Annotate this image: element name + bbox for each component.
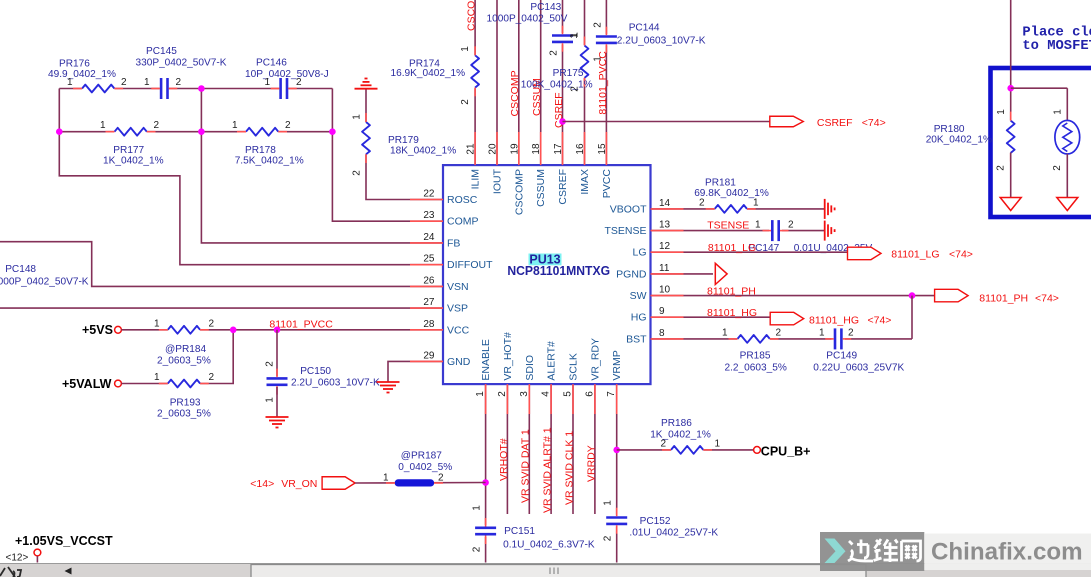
pin 19 CSCOMP: [509, 132, 525, 215]
svg-text:0_0402_5%: 0_0402_5%: [398, 462, 452, 473]
thermistor RT: [1052, 109, 1080, 171]
svg-text:to MOSFET: to MOSFET: [1022, 39, 1091, 54]
svg-text:PR186: PR186: [661, 418, 692, 429]
svg-text:81101_PVCC: 81101_PVCC: [597, 51, 609, 115]
wire PR180 to ground: [1010, 153, 1012, 198]
svg-text:16: 16: [575, 143, 586, 155]
svg-text:IOUT: IOUT: [492, 168, 504, 194]
svg-text:2.2_0603_5%: 2.2_0603_5%: [725, 362, 787, 373]
svg-text:PR180: PR180: [934, 124, 965, 135]
svg-text:PR178: PR178: [245, 145, 276, 156]
wire +5VALW to VCC node: [121, 330, 233, 384]
svg-text:CSSUM: CSSUM: [535, 169, 547, 207]
pin 4 ALERT#: [541, 341, 558, 414]
svg-text:VRRDY: VRRDY: [585, 445, 597, 482]
svg-text:81101_PH: 81101_PH: [707, 286, 756, 298]
svg-text:+1.05VS_VCCST: +1.05VS_VCCST: [15, 534, 113, 548]
wire thermistor to ground: [1066, 154, 1068, 198]
svg-text:2: 2: [285, 120, 291, 131]
svg-text:7.5K_0402_1%: 7.5K_0402_1%: [235, 156, 304, 167]
svg-text:3: 3: [519, 391, 530, 397]
pin 8 BST: [626, 328, 683, 346]
svg-text:5: 5: [563, 391, 574, 397]
port +1.05VS_VCCST: [6, 534, 113, 564]
svg-text:81101_LG: 81101_LG: [891, 249, 939, 261]
resistor PR174: [391, 46, 480, 105]
ground symbol GND pin: [377, 382, 400, 393]
svg-text:2: 2: [154, 120, 160, 131]
pin 2 VR_HOT#: [497, 332, 514, 414]
watermark chinafix dark box: [820, 532, 924, 571]
pin 14 VBOOT: [610, 198, 684, 216]
wire PC150 branch: [276, 330, 278, 376]
scrollbar thumb: [251, 565, 866, 577]
svg-text:VR_RDY: VR_RDY: [589, 338, 601, 381]
svg-text:2: 2: [438, 473, 444, 484]
svg-text:VR_ON: VR_ON: [281, 478, 317, 490]
pin 23 COMP: [410, 210, 479, 228]
earth ground symbol: [355, 79, 378, 89]
wire VRMP to CPU_B+: [617, 449, 754, 451]
svg-text:81101_HG: 81101_HG: [707, 307, 757, 319]
power arrow PGND: [715, 263, 727, 284]
svg-text:13: 13: [659, 220, 671, 231]
resistor PR193: [154, 372, 215, 420]
svg-text:PR177: PR177: [113, 145, 144, 156]
svg-text:1: 1: [460, 46, 471, 52]
wire HG: [651, 316, 771, 318]
wire LG: [651, 251, 848, 253]
svg-text:27: 27: [423, 297, 435, 308]
svg-text:2.2U_0603_10V7-K: 2.2U_0603_10V7-K: [617, 36, 706, 47]
svg-text:1: 1: [819, 327, 825, 338]
svg-text:CSREF: CSREF: [817, 117, 853, 129]
svg-text:+5VALW: +5VALW: [62, 377, 112, 391]
svg-text:2: 2: [661, 438, 667, 449]
port +5VALW: [62, 377, 121, 391]
svg-text:TSENSE: TSENSE: [707, 219, 749, 231]
partial chinese char bottom left: [0, 567, 21, 577]
wire top row node: [59, 88, 332, 90]
wire left vertical to DIFFOUT: [59, 89, 443, 265]
watermark chevron: [825, 539, 846, 564]
svg-text:16.9K_0402_1%: 16.9K_0402_1%: [391, 68, 466, 79]
svg-text:VRHOT#: VRHOT#: [498, 438, 510, 481]
svg-text:VR SVID DAT 1: VR SVID DAT 1: [520, 429, 532, 503]
svg-text:4: 4: [541, 391, 552, 397]
svg-text:CSCOMP: CSCOMP: [465, 0, 477, 31]
capacitor PC149: [813, 327, 904, 373]
svg-text:1: 1: [715, 438, 721, 449]
junction row2 left: [56, 128, 63, 135]
svg-text:2: 2: [352, 170, 363, 176]
svg-text:<14>: <14>: [250, 478, 274, 490]
svg-text:20: 20: [488, 143, 499, 155]
wire top right vertical: [1010, 0, 1012, 121]
resistor @PR187 zero ohm: [383, 450, 452, 486]
svg-text:18K_0402_1%: 18K_0402_1%: [390, 146, 456, 157]
svg-text:PR175: PR175: [553, 68, 584, 79]
capacitor PC145: [136, 46, 227, 99]
scrollbar left arrow: [65, 568, 72, 575]
junction VCC node A: [230, 327, 237, 334]
svg-text:1: 1: [352, 114, 363, 120]
svg-text:VRMP: VRMP: [611, 350, 623, 380]
pin 20 IOUT: [488, 132, 504, 194]
pin 22 ROSC: [410, 189, 478, 207]
svg-text:1: 1: [154, 318, 160, 329]
pin 28 VCC: [410, 319, 470, 337]
flag 81101_PH: [935, 289, 1059, 304]
wire SW / net 81101_PH: [651, 295, 935, 297]
pin 25 DIFFOUT: [410, 254, 493, 272]
svg-text:2: 2: [497, 391, 508, 397]
svg-text:1K_0402_1%: 1K_0402_1%: [103, 156, 164, 167]
pin 5 SCLK: [563, 353, 580, 414]
svg-text:2: 2: [996, 165, 1007, 171]
svg-text:SDIO: SDIO: [524, 355, 536, 381]
svg-text:1: 1: [232, 120, 238, 131]
resistor PR177: [100, 120, 164, 167]
svg-text:TSENSE: TSENSE: [604, 225, 646, 237]
svg-text:CSCOMP: CSCOMP: [513, 169, 525, 215]
junction row2 mid: [198, 128, 205, 135]
svg-text:VR SVID CLK 1: VR SVID CLK 1: [563, 431, 575, 505]
svg-text:BST: BST: [626, 333, 647, 345]
pin 7 VRMP: [606, 350, 623, 414]
svg-text:81101_PH: 81101_PH: [979, 293, 1028, 305]
svg-text:@PR184: @PR184: [165, 344, 206, 355]
wire VSP: [0, 307, 443, 309]
svg-text:2: 2: [570, 86, 581, 92]
svg-text:330P_0402_50V7-K: 330P_0402_50V7-K: [136, 58, 227, 69]
svg-text:1: 1: [996, 109, 1007, 115]
svg-text:100K_0402_1%: 100K_0402_1%: [521, 80, 593, 91]
svg-text:1K_0402_1%: 1K_0402_1%: [650, 430, 711, 441]
svg-text:NCP81101MNTXG: NCP81101MNTXG: [507, 264, 610, 278]
svg-text:2: 2: [848, 327, 854, 338]
svg-text:1: 1: [603, 500, 614, 506]
resistor PR185: [722, 327, 787, 373]
svg-text:2: 2: [788, 219, 794, 230]
svg-text:PR193: PR193: [170, 398, 201, 409]
svg-text:29: 29: [423, 350, 435, 361]
svg-text:1: 1: [265, 77, 271, 88]
capacitor PC152: [603, 500, 719, 542]
junction CSREF: [559, 118, 566, 125]
capacitor PC147: [748, 219, 872, 254]
capacitor PC150: [265, 361, 380, 403]
svg-text:11: 11: [659, 263, 670, 274]
svg-text:2: 2: [121, 77, 127, 88]
svg-text:28: 28: [423, 319, 435, 330]
wire VCC row: [121, 329, 443, 331]
pin 13 TSENSE: [604, 220, 683, 238]
svg-text:2: 2: [472, 546, 483, 552]
svg-text:1000P_0402_50V: 1000P_0402_50V: [487, 13, 568, 24]
svg-text:VCC: VCC: [447, 324, 470, 336]
ground triangle right: [1057, 198, 1078, 211]
wire BST: [651, 338, 738, 340]
wire ENABLE vertical: [485, 384, 487, 525]
pin 18 CSSUM: [531, 132, 547, 207]
wire TSENSE: [651, 230, 770, 232]
svg-text:2: 2: [176, 77, 182, 88]
wire VR_ON row: [355, 482, 486, 485]
svg-text:1: 1: [265, 397, 276, 403]
resistor PR176: [48, 59, 127, 93]
svg-text:2: 2: [265, 361, 276, 367]
wire PGND: [651, 273, 714, 275]
capacitor PC144: [593, 22, 706, 62]
wire CSREF horizontal: [563, 121, 770, 123]
wire PR179 to ROSC: [366, 90, 443, 200]
wire CSCOMP vertical: [518, 0, 520, 165]
svg-text:PC150: PC150: [300, 366, 331, 377]
junction node top: [198, 85, 205, 92]
svg-text:0.22U_0603_25V7K: 0.22U_0603_25V7K: [813, 362, 904, 373]
svg-text:26: 26: [423, 275, 435, 286]
svg-text:2: 2: [296, 77, 302, 88]
svg-text:PVCC: PVCC: [601, 169, 613, 199]
svg-text:24: 24: [423, 232, 435, 243]
svg-text:GND: GND: [447, 356, 471, 368]
wire port stem: [36, 556, 38, 563]
capacitor PC148 label: [0, 264, 89, 288]
power bars TSENSE: [825, 221, 835, 241]
wire PC150 to ground: [276, 387, 278, 417]
svg-text:2: 2: [603, 535, 614, 541]
resistor PR180: [926, 109, 1015, 171]
resistor PR179: [352, 113, 457, 176]
resistor PR175: [521, 32, 593, 92]
svg-text:<12>: <12>: [6, 553, 29, 564]
svg-text:@PR187: @PR187: [401, 450, 442, 461]
resistor PR184: [154, 318, 215, 366]
wire VR_RDY stub / net VRRDY: [594, 384, 596, 514]
wire ILIM vertical / net CSCOMP: [474, 0, 476, 55]
svg-text:23: 23: [423, 210, 435, 221]
svg-text:DIFFOUT: DIFFOUT: [447, 259, 493, 271]
resistor PR181: [694, 177, 769, 213]
svg-text:<74>: <74>: [949, 249, 973, 261]
svg-text:COMP: COMP: [447, 216, 479, 228]
junction row2 right: [329, 128, 336, 135]
svg-text:CPU_B+: CPU_B+: [761, 444, 811, 458]
svg-text:FB: FB: [447, 237, 460, 249]
wire SDIO stub / net VR SVID DAT 1: [528, 384, 530, 514]
flag VR_ON: [250, 477, 355, 490]
pin 6 VR_RDY: [584, 338, 601, 414]
svg-text:2: 2: [699, 198, 705, 209]
svg-text:6: 6: [584, 391, 595, 397]
svg-text:PR181: PR181: [705, 177, 736, 188]
svg-text:18: 18: [531, 143, 542, 155]
wire GND pin to ground: [388, 361, 443, 382]
resistor PR178: [232, 120, 304, 167]
svg-text:2: 2: [1052, 165, 1063, 171]
svg-text:2_0603_5%: 2_0603_5%: [157, 356, 211, 367]
svg-text:PR179: PR179: [388, 135, 419, 146]
wire BST to SW node: [911, 296, 913, 339]
svg-text:1: 1: [67, 77, 73, 88]
op-amp U1 PU13 NCP81101MNTXG IC body: [443, 165, 651, 384]
svg-text:2.2U_0603_10V7-K: 2.2U_0603_10V7-K: [291, 378, 380, 389]
svg-text:CSREF: CSREF: [557, 169, 569, 205]
pin 27 VSP: [410, 297, 468, 315]
wire PVCC vertical / net 81101_PVCC: [605, 0, 607, 34]
svg-text:1: 1: [472, 505, 483, 511]
flag CSREF: [770, 116, 886, 129]
svg-text:2_0603_5%: 2_0603_5%: [157, 409, 211, 420]
svg-text:ENABLE: ENABLE: [480, 339, 492, 380]
svg-text:20K_0402_1%: 20K_0402_1%: [926, 134, 992, 145]
svg-text:2: 2: [209, 318, 215, 329]
svg-text:PR176: PR176: [59, 59, 90, 70]
pin 29 GND: [410, 350, 471, 368]
svg-text:19: 19: [509, 143, 520, 155]
svg-text:PGND: PGND: [616, 268, 647, 280]
svg-text:15: 15: [597, 143, 608, 155]
svg-text:1: 1: [475, 391, 486, 397]
pin 12 LG: [632, 241, 683, 259]
wire VSN: [0, 242, 443, 287]
junction SW node: [909, 292, 916, 299]
scrollbar grip: [550, 568, 558, 575]
watermark chinafix light box: [924, 534, 1091, 571]
svg-text:8: 8: [659, 328, 665, 339]
svg-text:SW: SW: [630, 290, 647, 302]
wire ALERT# stub / net VR SVID ALRT# 1: [550, 384, 552, 514]
svg-text:1000P_0402_50V7-K: 1000P_0402_50V7-K: [0, 277, 89, 288]
watermark chinese characters: [848, 539, 921, 562]
svg-text:PR185: PR185: [740, 351, 771, 362]
pin 15 PVCC: [597, 132, 613, 198]
svg-text:10P_0402_50V8-J: 10P_0402_50V8-J: [245, 69, 329, 80]
svg-text:CSCOMP: CSCOMP: [509, 70, 521, 116]
svg-text:1: 1: [753, 198, 759, 209]
wire thermistor branch: [1066, 88, 1068, 121]
wire second row: [59, 131, 332, 133]
svg-text:VSP: VSP: [447, 303, 468, 315]
svg-text:12: 12: [659, 241, 671, 252]
svg-text:17: 17: [553, 143, 564, 155]
note box: [991, 68, 1091, 217]
wire VRMP vertical: [616, 384, 618, 515]
svg-text:2: 2: [776, 327, 782, 338]
scrollbar track: [0, 564, 1091, 577]
svg-text:7: 7: [606, 391, 617, 397]
svg-text:HG: HG: [631, 312, 647, 324]
capacitor PC151: [472, 505, 595, 553]
ground triangle left: [1000, 198, 1021, 211]
svg-text:PC143: PC143: [530, 2, 561, 13]
pin 17 CSREF: [553, 132, 569, 205]
wire CSREF vertical: [562, 0, 564, 33]
svg-text:1: 1: [100, 120, 106, 131]
svg-text:1: 1: [383, 473, 389, 484]
svg-text:PC146: PC146: [256, 58, 287, 69]
svg-text:Chinafix.com: Chinafix.com: [931, 539, 1083, 566]
ground symbol PC150: [266, 417, 289, 428]
svg-text:.01U_0402_25V7-K: .01U_0402_25V7-K: [629, 528, 718, 539]
svg-text:1: 1: [144, 77, 150, 88]
wire IOUT vertical: [496, 0, 498, 165]
svg-text:<74>: <74>: [1035, 293, 1059, 305]
svg-text:PC148: PC148: [5, 264, 36, 275]
pin 24 FB: [410, 232, 460, 250]
pin 10 SW: [630, 285, 684, 303]
svg-text:1: 1: [154, 372, 160, 383]
svg-text:PC151: PC151: [504, 526, 535, 537]
wire SCLK stub / net VR SVID CLK 1: [572, 384, 574, 514]
wire VBOOT: [651, 208, 825, 210]
svg-text:LG: LG: [632, 247, 646, 259]
wire right vertical to COMP: [332, 89, 443, 222]
svg-text:PC149: PC149: [826, 351, 857, 362]
svg-text:2: 2: [593, 22, 604, 28]
port +5VS: [82, 323, 121, 337]
wire VR_HOT# stub / net VRHOT#: [506, 384, 508, 514]
pin 9 HG: [631, 306, 684, 324]
pin 16 IMAX: [575, 132, 591, 195]
svg-text:VR_HOT#: VR_HOT#: [502, 332, 514, 381]
svg-text:<74>: <74>: [862, 117, 886, 129]
svg-text:PC145: PC145: [146, 46, 177, 57]
svg-text:1: 1: [570, 32, 581, 38]
svg-text:10: 10: [659, 285, 671, 296]
svg-text:81101_HG: 81101_HG: [809, 315, 859, 327]
svg-text:14: 14: [659, 198, 671, 209]
flag 81101_LG: [848, 247, 973, 260]
svg-text:VBOOT: VBOOT: [610, 203, 647, 215]
pin 21 ILIM: [466, 132, 482, 189]
junction ENABLE node: [482, 479, 489, 486]
svg-text:ROSC: ROSC: [447, 194, 478, 206]
svg-text:9: 9: [659, 306, 665, 317]
svg-text:21: 21: [466, 143, 477, 155]
resistor PR186: [650, 418, 720, 454]
svg-text:VR SVID ALRT# 1: VR SVID ALRT# 1: [542, 427, 554, 513]
svg-text:2: 2: [549, 50, 560, 56]
wire across box: [1011, 87, 1068, 89]
wire CSSUM vertical: [540, 0, 542, 165]
flag 81101_HG: [770, 312, 891, 326]
svg-text:25: 25: [423, 254, 435, 265]
power bars VBOOT: [825, 199, 835, 219]
svg-text:81101_LG: 81101_LG: [708, 242, 756, 254]
svg-text:1: 1: [722, 327, 728, 338]
svg-text:IMAX: IMAX: [579, 169, 591, 195]
svg-text:1: 1: [1053, 109, 1064, 115]
svg-text:SCLK: SCLK: [568, 353, 580, 380]
port CPU_B+: [754, 444, 811, 458]
pin 3 SDIO: [519, 355, 536, 414]
capacitor PC143: [487, 2, 580, 56]
svg-text:2: 2: [460, 99, 471, 105]
svg-text:22: 22: [423, 189, 435, 200]
svg-text:VSN: VSN: [447, 281, 469, 293]
junction top right: [1007, 85, 1014, 92]
svg-text:+5VS: +5VS: [82, 323, 113, 337]
svg-text:0.1U_0402_6.3V7-K: 0.1U_0402_6.3V7-K: [503, 540, 595, 551]
pin 11 PGND: [616, 263, 683, 281]
pin 1 ENABLE: [475, 339, 492, 414]
svg-text:1: 1: [755, 219, 761, 230]
wire IMAX vertical: [584, 0, 586, 45]
svg-text:PC144: PC144: [629, 23, 660, 34]
svg-text:<74>: <74>: [868, 315, 892, 327]
